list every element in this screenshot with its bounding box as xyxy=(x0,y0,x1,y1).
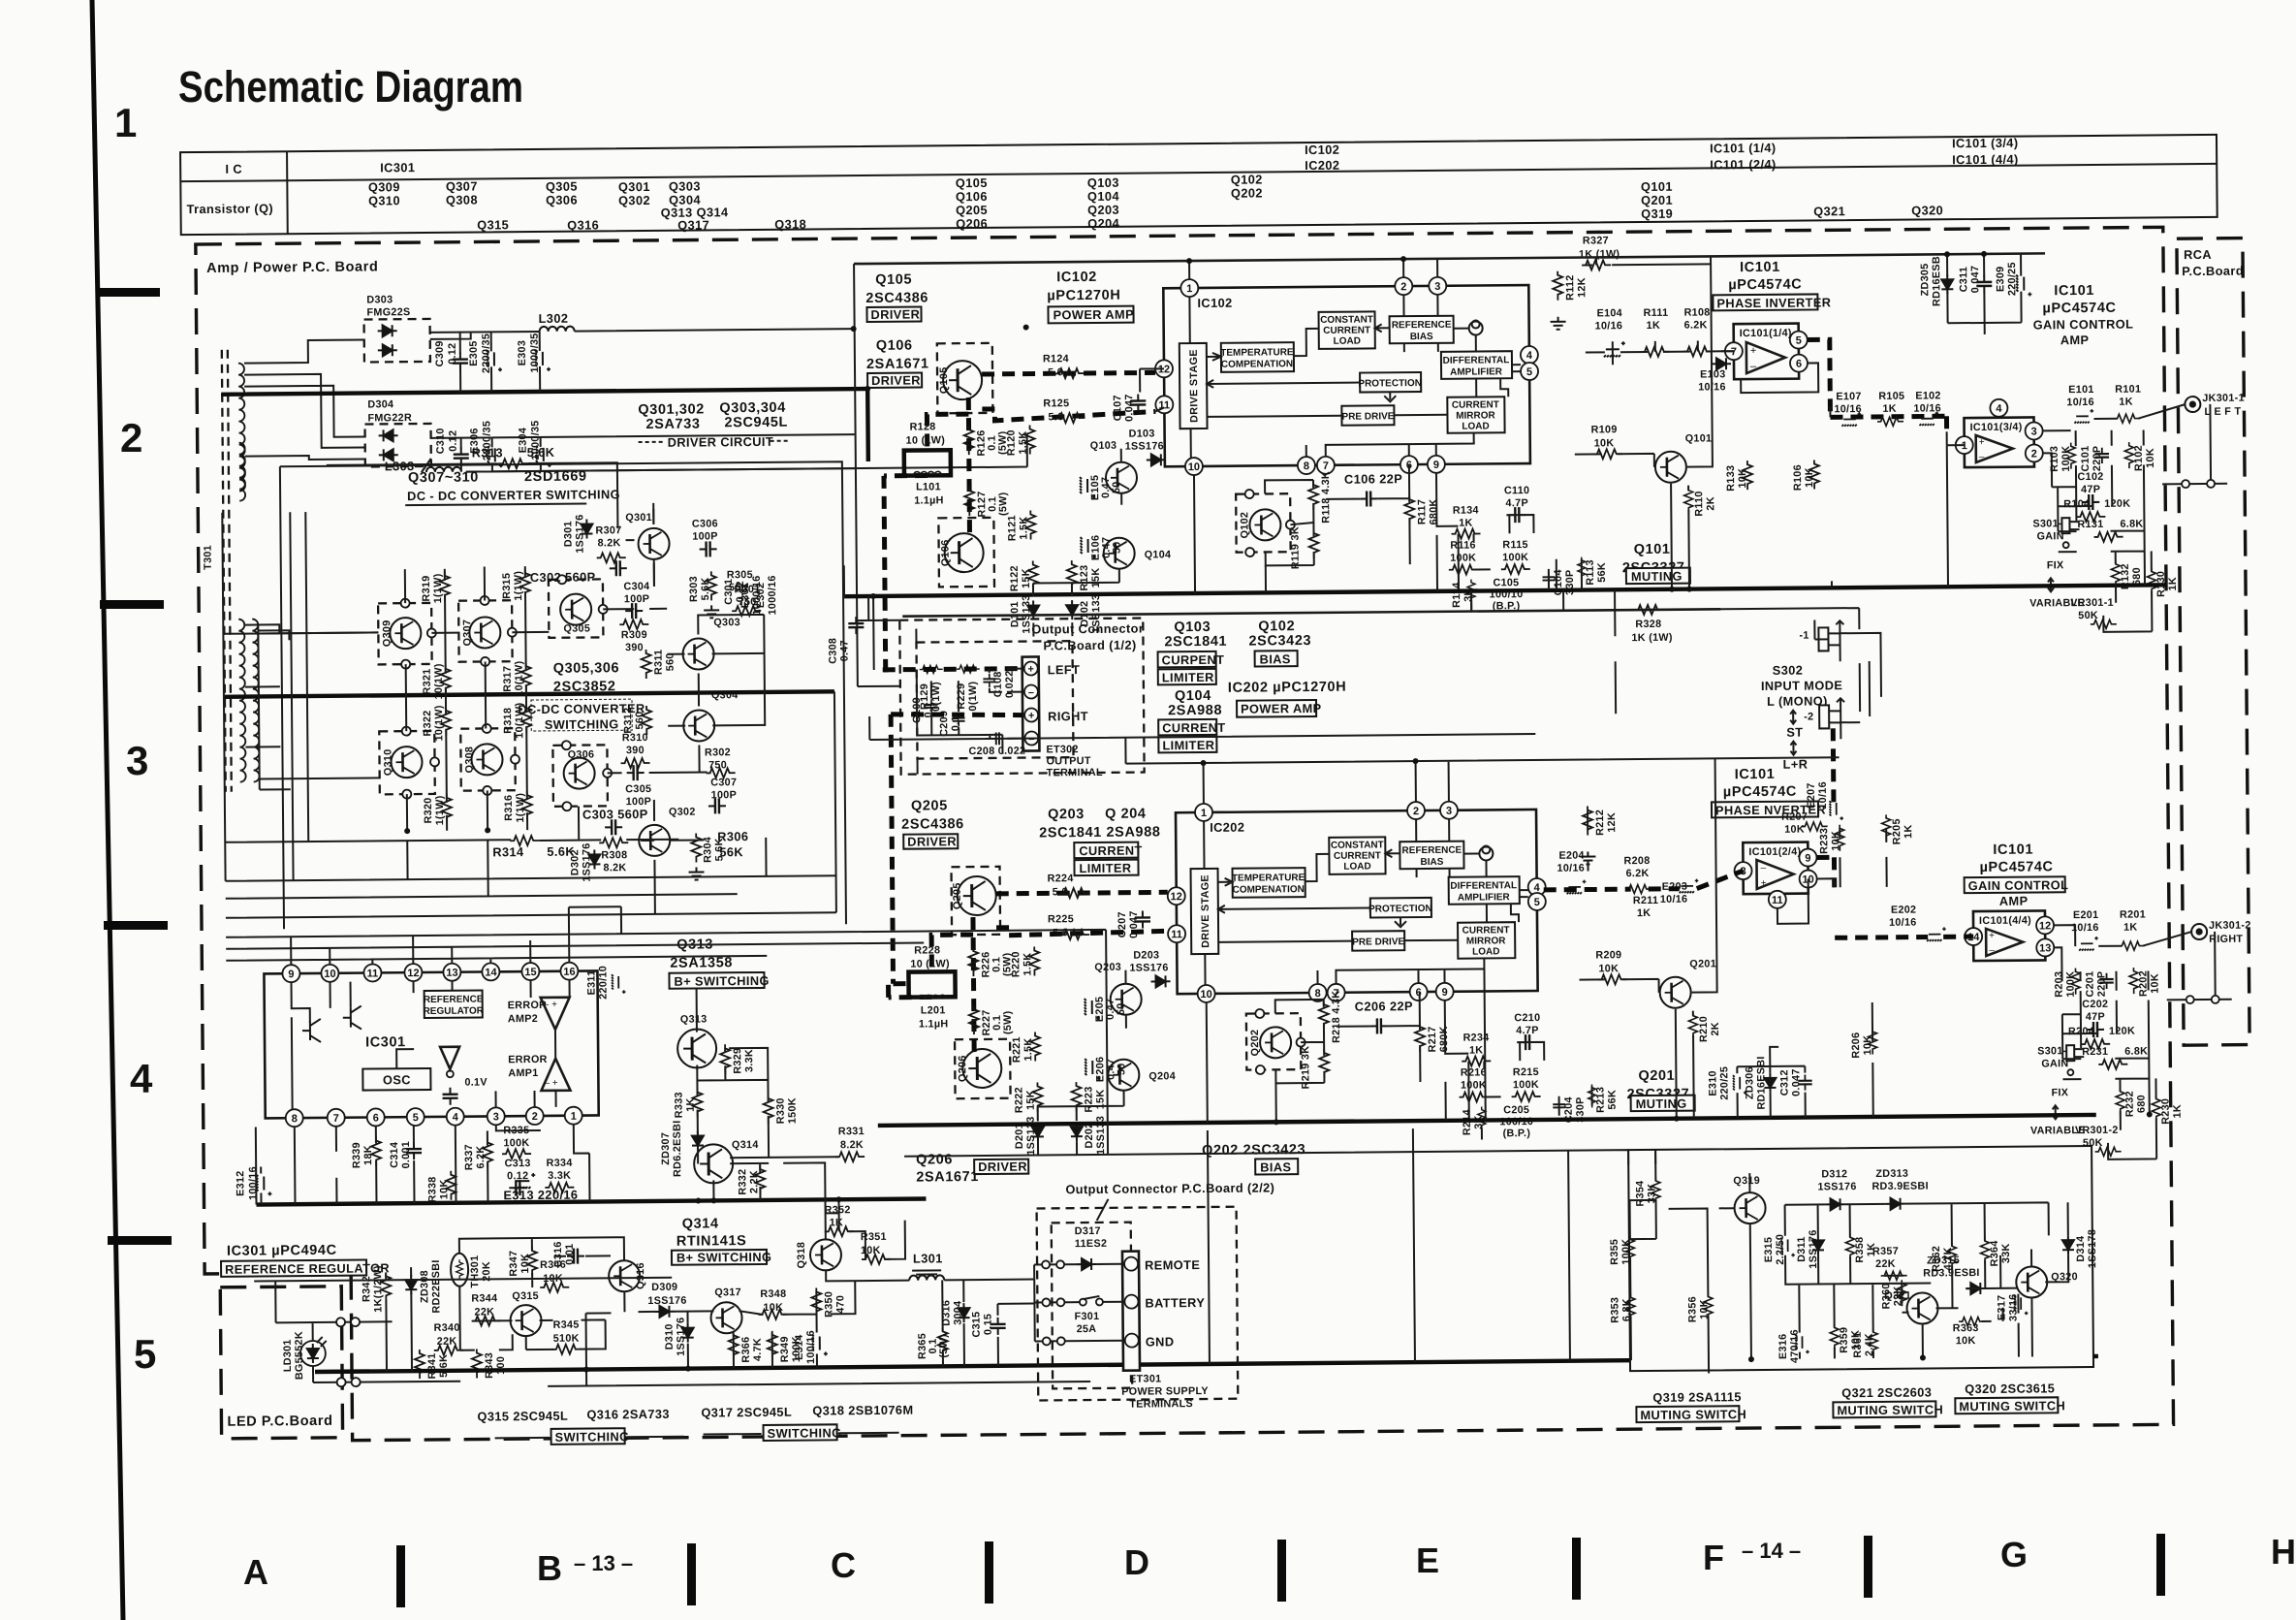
svg-text:3.3K: 3.3K xyxy=(743,1049,755,1072)
reference regulator box xyxy=(423,990,484,1018)
svg-text:Q307~310: Q307~310 xyxy=(408,469,479,486)
svg-text:10: 10 xyxy=(1188,461,1200,473)
svg-text:10K: 10K xyxy=(2145,448,2156,468)
svg-text:CURRENT: CURRENT xyxy=(1323,325,1370,335)
resistor R319 xyxy=(421,572,450,604)
svg-text:R218 4.3K: R218 4.3K xyxy=(1331,991,1342,1043)
svg-text:Q314: Q314 xyxy=(732,1139,759,1151)
parts table frame xyxy=(180,135,2217,235)
svg-text:I C: I C xyxy=(225,162,242,176)
label Q202 bias xyxy=(1202,1142,1305,1175)
svg-text:22K: 22K xyxy=(1875,1258,1896,1270)
resistor R317 xyxy=(502,660,531,697)
svg-text:13: 13 xyxy=(2039,942,2051,954)
svg-text:Q306: Q306 xyxy=(546,193,578,207)
svg-text:RIGHT: RIGHT xyxy=(1048,709,1088,723)
capacitor E309 xyxy=(1995,262,2031,297)
resistor R212 xyxy=(1580,806,1619,864)
svg-text:Q104: Q104 xyxy=(1087,189,1120,204)
svg-text:MUTING SWITCH: MUTING SWITCH xyxy=(1640,1407,1746,1422)
svg-text:IC101 (4/4): IC101 (4/4) xyxy=(1952,152,2019,168)
label Q319 muting switch xyxy=(1636,1389,1746,1422)
capacitor E315 xyxy=(1763,1234,1795,1265)
resistor R358 xyxy=(1845,1233,1877,1262)
svg-text:100P: 100P xyxy=(692,530,718,542)
svg-text:OUTPUT: OUTPUT xyxy=(1047,755,1091,767)
svg-text:1SS176: 1SS176 xyxy=(1817,1181,1856,1192)
wire IC202 pins up xyxy=(869,708,1840,807)
svg-text:12: 12 xyxy=(407,968,419,979)
protection box 2 xyxy=(1368,898,1432,918)
svg-text:E207: E207 xyxy=(1806,782,1817,809)
transistor Q313 xyxy=(669,937,770,1068)
svg-text:2SA733: 2SA733 xyxy=(645,417,700,432)
constant current load box 2 xyxy=(1329,837,1385,874)
svg-text:D303: D303 xyxy=(366,294,393,305)
resistor R339 xyxy=(351,1136,381,1168)
svg-text:5: 5 xyxy=(1526,366,1532,378)
svg-text:6: 6 xyxy=(373,1112,379,1124)
resistor R121 xyxy=(1006,510,1035,541)
svg-text:Q319: Q319 xyxy=(1733,1175,1760,1187)
svg-text:R203: R203 xyxy=(2053,971,2064,998)
diode D314 xyxy=(2062,1229,2098,1269)
thermistor TH301 xyxy=(451,1253,492,1287)
svg-text:2SC4386: 2SC4386 xyxy=(901,816,964,833)
reference bias box 2 xyxy=(1400,842,1463,870)
svg-text:REFERENCE: REFERENCE xyxy=(1401,845,1462,857)
svg-text:– +: – + xyxy=(544,1078,557,1089)
label switching box 2 xyxy=(704,1424,899,1442)
svg-text:Q203: Q203 xyxy=(1094,962,1121,973)
svg-text:R353: R353 xyxy=(1609,1297,1620,1323)
resistor R343 xyxy=(472,1349,507,1379)
diode D202 xyxy=(1071,1116,1107,1156)
IC202 pin 10 xyxy=(1198,985,1215,1002)
label IC301 regulator xyxy=(221,1242,390,1277)
resistor R223 xyxy=(1071,1082,1106,1113)
svg-text:Q321: Q321 xyxy=(1813,204,1845,218)
svg-text:Q202: Q202 xyxy=(1231,185,1263,200)
zener ZD308 xyxy=(405,1259,442,1314)
IC202 pin 6 xyxy=(1410,983,1428,1001)
svg-text:5.6K: 5.6K xyxy=(527,445,555,460)
svg-text:R128: R128 xyxy=(909,421,935,432)
transistor Q317 xyxy=(710,1286,741,1333)
svg-text:IC301: IC301 xyxy=(365,1034,406,1050)
svg-text:R208: R208 xyxy=(1623,855,1650,867)
diode D316 xyxy=(940,1300,969,1326)
svg-text:R112: R112 xyxy=(1564,274,1576,301)
resistor R311 xyxy=(642,650,676,680)
capacitor C109 xyxy=(911,697,938,723)
resistor R342 xyxy=(361,1265,391,1313)
svg-text:R125: R125 xyxy=(1043,397,1069,409)
capacitor C302 xyxy=(530,560,627,585)
svg-text:REMOTE: REMOTE xyxy=(1145,1257,1200,1272)
svg-text:R354: R354 xyxy=(1634,1181,1646,1207)
resistor R106 xyxy=(1792,460,1819,491)
svg-text:R225: R225 xyxy=(1048,913,1074,925)
svg-text:Q106: Q106 xyxy=(956,189,988,204)
svg-text:1.5K: 1.5K xyxy=(1022,1038,1034,1062)
svg-text:Q308: Q308 xyxy=(463,746,475,774)
svg-text:C105: C105 xyxy=(1493,577,1519,588)
resistor R302 xyxy=(705,746,736,778)
svg-text:µPC4574C: µPC4574C xyxy=(2042,301,2116,317)
svg-text:R221: R221 xyxy=(1011,1036,1022,1063)
resistor R224 xyxy=(1048,873,1089,898)
svg-text:– +: – + xyxy=(544,1000,557,1010)
resistor R314 xyxy=(492,836,575,860)
pre drive box 2 xyxy=(1352,931,1404,950)
svg-text:10: 10 xyxy=(1200,989,1211,1001)
svg-text:R233: R233 xyxy=(1818,828,1830,854)
svg-text:R131: R131 xyxy=(2077,519,2103,530)
IC301 pin 14 xyxy=(482,963,499,980)
svg-text:R110: R110 xyxy=(1693,491,1705,517)
svg-text:R319: R319 xyxy=(421,575,432,601)
wire E-caps upper verticals xyxy=(1613,339,1831,419)
label DC-DC switching transistors xyxy=(405,468,620,505)
svg-text:Q101: Q101 xyxy=(1685,432,1713,444)
resistor R116 xyxy=(1449,540,1478,575)
svg-text:C302 560P: C302 560P xyxy=(530,569,596,585)
resistor R109 xyxy=(1591,424,1622,459)
resistor R338 xyxy=(426,1171,456,1203)
svg-text:9: 9 xyxy=(1442,987,1448,999)
heavy supply bus xyxy=(221,389,868,467)
svg-text:Q201: Q201 xyxy=(1689,958,1716,969)
svg-text:1K: 1K xyxy=(2119,397,2133,408)
svg-text:C102: C102 xyxy=(2077,471,2103,483)
svg-text:680: 680 xyxy=(2131,567,2143,586)
capacitor C108 xyxy=(983,670,1016,698)
svg-text:µPC4574C: µPC4574C xyxy=(1723,784,1797,801)
svg-text:12K: 12K xyxy=(1606,812,1618,833)
svg-text:4: 4 xyxy=(1526,350,1533,362)
svg-text:IC101 (3/4): IC101 (3/4) xyxy=(1952,136,2019,151)
capacitor C102 xyxy=(2077,471,2103,510)
current mirror load box xyxy=(1447,397,1504,433)
svg-text:PROTECTION: PROTECTION xyxy=(1358,378,1422,390)
label IC202 power amp xyxy=(1228,680,1347,717)
resistor R127 xyxy=(964,487,1009,518)
temperature compensation box 2 xyxy=(1232,868,1305,898)
svg-text:2SA1671: 2SA1671 xyxy=(916,1169,979,1186)
svg-text:1K: 1K xyxy=(2123,922,2138,934)
svg-text:R311: R311 xyxy=(653,650,665,676)
svg-text:10K: 10K xyxy=(438,1179,450,1199)
svg-text:LOAD: LOAD xyxy=(1462,421,1489,431)
svg-text:1K: 1K xyxy=(2172,1104,2184,1119)
resistor R113 xyxy=(1578,556,1608,585)
svg-text:IC202: IC202 xyxy=(1210,820,1244,835)
wire dc-dc grid horizontals xyxy=(223,607,836,917)
capacitor C313 xyxy=(505,1158,531,1195)
svg-text:100K: 100K xyxy=(1461,1079,1487,1091)
svg-text:MIRROR: MIRROR xyxy=(1456,410,1495,421)
capacitor E314 xyxy=(794,1330,828,1364)
IC202 pin 7 xyxy=(1328,984,1345,1001)
svg-text:220/10: 220/10 xyxy=(597,966,609,1000)
svg-text:Transistor (Q): Transistor (Q) xyxy=(186,201,273,216)
resistor R103 xyxy=(2049,443,2076,472)
svg-text:Q318 2SB1076M: Q318 2SB1076M xyxy=(812,1403,913,1418)
resistor R112 xyxy=(1550,271,1588,330)
svg-text:220P: 220P xyxy=(2092,446,2103,472)
IC301 pin 7 xyxy=(328,1109,345,1127)
svg-text:1.5K: 1.5K xyxy=(1018,431,1029,455)
svg-text:SWITCHING: SWITCHING xyxy=(768,1425,842,1441)
svg-text:D203: D203 xyxy=(1133,949,1159,961)
svg-text:5: 5 xyxy=(413,1112,419,1124)
svg-text:RD16ESBI: RD16ESBI xyxy=(1755,1056,1767,1109)
IC102 pin 8 xyxy=(1298,457,1315,474)
svg-text:+: + xyxy=(1989,931,1995,941)
svg-text:Q308: Q308 xyxy=(446,192,478,206)
jack JK301-2 xyxy=(2191,920,2251,946)
svg-text:R339: R339 xyxy=(351,1142,362,1168)
zone tick 4/5 xyxy=(108,1236,172,1245)
svg-text:R108: R108 xyxy=(1683,306,1710,318)
wires muting block xyxy=(1629,1146,2069,1374)
capacitor C106 xyxy=(1344,471,1402,507)
capacitor E301 xyxy=(739,575,763,615)
svg-text:8.2K: 8.2K xyxy=(840,1139,864,1151)
IC301 pin 15 xyxy=(521,963,539,980)
transistor Q206 xyxy=(955,1039,1011,1098)
svg-text:E312: E312 xyxy=(235,1170,246,1196)
svg-text:+: + xyxy=(1761,878,1767,889)
capacitor E207 xyxy=(1806,781,1843,820)
resistor R222 xyxy=(1013,1082,1042,1113)
svg-text:+: + xyxy=(1979,437,1985,448)
svg-text:6.2K: 6.2K xyxy=(475,1145,487,1168)
svg-text:R333: R333 xyxy=(674,1092,685,1118)
transistor Q316 xyxy=(609,1260,646,1291)
svg-text:TEMPERATURE: TEMPERATURE xyxy=(1232,873,1305,884)
svg-text:Q103: Q103 xyxy=(1174,619,1211,635)
svg-text:10 (1W): 10 (1W) xyxy=(906,434,946,446)
svg-text:IC101 (1/4): IC101 (1/4) xyxy=(1710,141,1777,156)
svg-text:Q206: Q206 xyxy=(957,1055,968,1082)
capacitor C306 xyxy=(692,518,718,556)
svg-text:100K: 100K xyxy=(2064,971,2076,998)
IC102 pin 12 xyxy=(1155,360,1173,377)
svg-text:FIX: FIX xyxy=(2047,559,2064,571)
wire pins to top rail IC102 xyxy=(1189,256,1711,279)
svg-text:(B.P.): (B.P.) xyxy=(1503,1128,1531,1139)
resistor R315 xyxy=(501,569,530,601)
transistor Q318 xyxy=(796,1239,841,1270)
transistor Q102 xyxy=(1236,490,1295,557)
svg-text:REFERENCE: REFERENCE xyxy=(424,994,484,1005)
svg-text:R123: R123 xyxy=(1079,564,1090,590)
capacitor C303 xyxy=(582,807,648,836)
resistor R114 xyxy=(1451,580,1475,608)
svg-text:11: 11 xyxy=(1171,929,1182,940)
svg-text:Q102: Q102 xyxy=(1258,619,1295,634)
svg-text:IC301 µPC494C: IC301 µPC494C xyxy=(227,1243,337,1259)
bold drive wire lower xyxy=(982,407,1155,421)
transistor Q306 xyxy=(552,741,612,811)
resistor R331 xyxy=(835,1126,865,1161)
svg-text:7: 7 xyxy=(1323,461,1329,472)
svg-text:+: + xyxy=(1027,664,1034,676)
svg-text:5: 5 xyxy=(1534,897,1540,908)
svg-text:JK301-2: JK301-2 xyxy=(2209,920,2251,932)
svg-text:Q319 2SA1115: Q319 2SA1115 xyxy=(1652,1389,1742,1405)
label IC102 power amp xyxy=(1047,270,1134,324)
current source symbol xyxy=(1469,320,1483,334)
transistor Q308 xyxy=(460,724,519,796)
svg-text:E: E xyxy=(1416,1541,1439,1580)
IC301 pin 4 xyxy=(447,1108,464,1126)
svg-text:DRIVE STAGE: DRIVE STAGE xyxy=(1200,874,1212,948)
svg-text:Q313: Q313 xyxy=(680,1013,708,1025)
svg-text:C207: C207 xyxy=(1117,911,1128,937)
resistor R214 xyxy=(1462,1106,1486,1135)
svg-text:R321: R321 xyxy=(422,668,433,694)
resistor R210 xyxy=(1688,1012,1721,1042)
svg-text:Q201: Q201 xyxy=(1638,1068,1675,1084)
svg-text:11ES2: 11ES2 xyxy=(1075,1238,1107,1250)
transistor Q203 xyxy=(1094,962,1141,1015)
transistor Q105 xyxy=(937,343,993,413)
svg-text:S302: S302 xyxy=(1773,663,1804,678)
bold wire to left terminal xyxy=(883,669,1022,670)
svg-text:Output Connector: Output Connector xyxy=(1031,621,1144,637)
svg-text:Q306: Q306 xyxy=(568,748,595,760)
svg-text:F301: F301 xyxy=(1074,1311,1099,1322)
resistor R108 xyxy=(1683,306,1712,356)
resistor R335 xyxy=(502,1125,531,1159)
transistor Q303 xyxy=(682,617,740,670)
svg-text:R309: R309 xyxy=(621,629,647,641)
capacitor C305 xyxy=(625,765,651,808)
wire regulator verticals xyxy=(256,1125,590,1205)
svg-text:LOAD: LOAD xyxy=(1334,336,1361,347)
svg-text:R114: R114 xyxy=(1451,582,1463,608)
resistor R206 xyxy=(1850,1028,1877,1058)
svg-text:LEFT: LEFT xyxy=(1048,662,1081,677)
IC102 internal wires xyxy=(1189,294,1521,458)
bold wire right channel to terminal xyxy=(891,714,1024,984)
resistor R359 xyxy=(1830,1324,1862,1353)
svg-text:R340: R340 xyxy=(434,1322,460,1334)
resistor R334 xyxy=(545,1158,574,1192)
svg-text:1SS176: 1SS176 xyxy=(581,842,592,881)
wires output connector xyxy=(917,669,1023,740)
svg-text:IC101(2/4): IC101(2/4) xyxy=(1748,846,1801,858)
IC102 pin 4 xyxy=(1521,346,1538,364)
svg-text:R133: R133 xyxy=(1725,465,1737,492)
svg-text:13: 13 xyxy=(446,968,457,979)
IC202 pin 3 xyxy=(1440,802,1458,819)
inductor L301 xyxy=(909,1251,944,1280)
svg-text:Amp / Power P.C. Board: Amp / Power P.C. Board xyxy=(206,259,378,276)
svg-text:C309: C309 xyxy=(434,340,446,366)
svg-text:E102: E102 xyxy=(1915,390,1941,401)
svg-text:10K: 10K xyxy=(1804,467,1815,488)
svg-text:MUTING: MUTING xyxy=(1636,1096,1687,1111)
capacitor E203 xyxy=(1660,879,1699,905)
svg-text:1(1W): 1(1W) xyxy=(513,571,524,601)
resistor R134 xyxy=(1451,504,1480,538)
svg-text:R348: R348 xyxy=(760,1288,786,1300)
transistor Q301 xyxy=(625,512,669,559)
svg-text:(5W): (5W) xyxy=(1002,1010,1014,1034)
svg-text:12: 12 xyxy=(2039,920,2051,932)
svg-text:R332: R332 xyxy=(737,1169,748,1195)
svg-text:470: 470 xyxy=(834,1295,846,1314)
transformer T301 secondary winding a xyxy=(238,619,245,782)
svg-text:E101: E101 xyxy=(2068,384,2094,396)
svg-text:ZD308: ZD308 xyxy=(419,1270,430,1303)
resistor R201 xyxy=(2118,909,2146,951)
svg-text:R213: R213 xyxy=(1595,1087,1607,1113)
svg-text:Q305,306: Q305,306 xyxy=(553,660,620,677)
svg-text:6.8K: 6.8K xyxy=(2124,1045,2148,1057)
svg-text:Q205: Q205 xyxy=(956,203,988,217)
svg-text:R356: R356 xyxy=(1686,1296,1698,1322)
label IC101 phase inverter lower xyxy=(1712,766,1826,817)
svg-text:R302: R302 xyxy=(705,746,731,758)
svg-text:DC - DC CONVERTER SWITCHING: DC - DC CONVERTER SWITCHING xyxy=(407,487,620,503)
svg-text:R212: R212 xyxy=(1594,810,1606,836)
diode D312 xyxy=(1817,1168,1857,1210)
svg-text:LOAD: LOAD xyxy=(1343,861,1370,872)
svg-text:R312: R312 xyxy=(622,708,634,734)
svg-text:C315: C315 xyxy=(970,1311,982,1337)
svg-text:C311: C311 xyxy=(1958,267,1969,293)
resistor R102 xyxy=(2124,442,2156,471)
svg-text:R207: R207 xyxy=(1781,811,1808,823)
svg-text:2SD1669: 2SD1669 xyxy=(524,469,587,486)
switch S301-1 xyxy=(2029,518,2085,609)
capacitor E304 xyxy=(517,420,550,467)
svg-text:R222: R222 xyxy=(1013,1087,1024,1113)
svg-text:R111: R111 xyxy=(1643,307,1668,319)
resistor R355 xyxy=(1609,1236,1635,1265)
svg-text:Q305: Q305 xyxy=(563,622,590,634)
svg-text:E314: E314 xyxy=(794,1334,805,1360)
differential amplifier box xyxy=(1441,351,1512,379)
transformer T301 primary winding xyxy=(238,364,245,492)
resistor R345 xyxy=(552,1319,582,1354)
svg-text:AMPLIFIER: AMPLIFIER xyxy=(1450,366,1503,377)
svg-text:1K: 1K xyxy=(2167,577,2179,591)
svg-text:Q316: Q316 xyxy=(567,217,599,232)
wire zener cluster xyxy=(1947,254,2022,335)
svg-text:IC301: IC301 xyxy=(380,160,415,175)
diode D102 xyxy=(1066,594,1102,634)
svg-text:1K: 1K xyxy=(685,1097,697,1112)
svg-text:AMP1: AMP1 xyxy=(508,1067,538,1079)
resistor R225 xyxy=(1048,913,1089,939)
svg-text:ZD306: ZD306 xyxy=(1744,1066,1755,1099)
bold drive wire upper ch2 xyxy=(996,892,1168,894)
svg-text:10K: 10K xyxy=(1956,1335,1976,1347)
svg-text:15K: 15K xyxy=(1025,1090,1037,1110)
svg-text:10/16: 10/16 xyxy=(1889,917,1917,929)
resistor R216 xyxy=(1459,1066,1488,1101)
svg-text:0.047: 0.047 xyxy=(1123,394,1135,422)
svg-text:1: 1 xyxy=(1201,808,1207,819)
resistor R119 xyxy=(1289,526,1318,569)
svg-text:TH301: TH301 xyxy=(469,1255,481,1288)
